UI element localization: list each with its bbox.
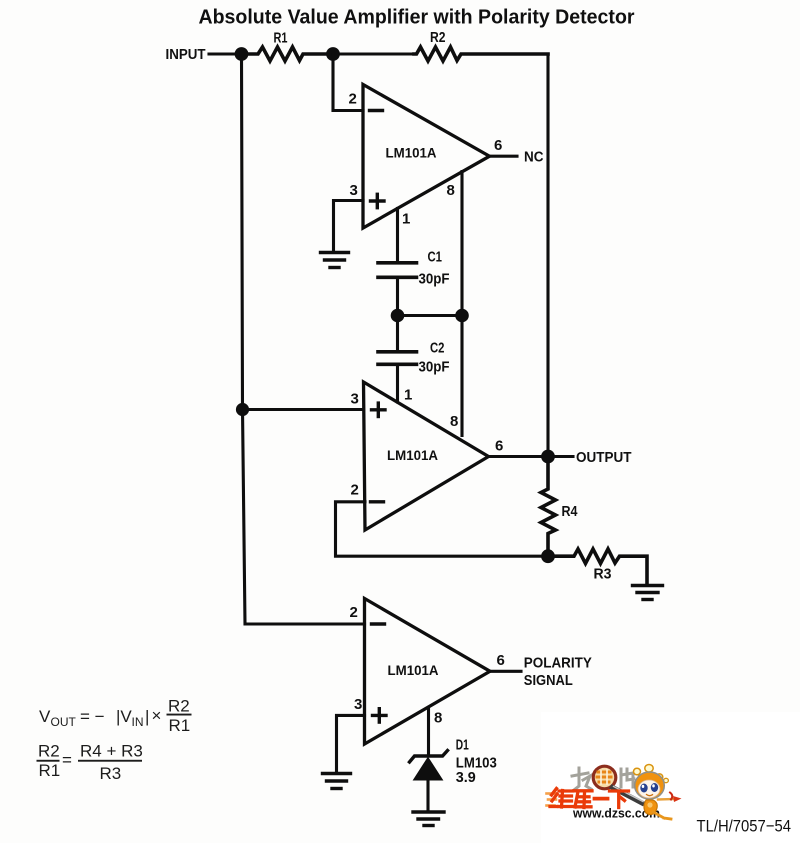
node OUTPUT junction <box>541 450 555 464</box>
diode D1 zener cathode bar <box>410 751 448 763</box>
wire junction row <box>398 314 463 317</box>
wire input stub <box>209 52 242 55</box>
svg-text:V: V <box>39 707 51 726</box>
svg-text:1: 1 <box>402 211 410 228</box>
svg-text:INPUT: INPUT <box>166 47 206 63</box>
wire U2 output <box>489 455 549 458</box>
watermark char wei <box>550 789 573 808</box>
capacitor C1 <box>378 263 417 278</box>
formula VOUT fraction bar <box>167 714 192 716</box>
plus symbol U2 <box>372 403 386 416</box>
svg-text:6: 6 <box>495 438 503 455</box>
svg-text:C1: C1 <box>428 250 443 266</box>
svg-text:×: × <box>152 706 162 725</box>
svg-text:NC: NC <box>524 150 544 166</box>
svg-text:3.9: 3.9 <box>456 770 476 786</box>
resistor R4 <box>541 457 556 557</box>
svg-text:R1: R1 <box>39 761 61 780</box>
svg-text:30pF: 30pF <box>419 359 450 375</box>
svg-text:R1: R1 <box>274 31 288 47</box>
diode D1 anode triangle <box>414 758 443 781</box>
wire U2 feedback loop <box>336 502 549 556</box>
watermark magnifier handle <box>613 787 644 804</box>
svg-text:R2: R2 <box>168 697 190 716</box>
svg-text:R4 + R3: R4 + R3 <box>80 742 143 761</box>
resistor R1 <box>242 47 334 61</box>
watermark char ku <box>574 791 592 808</box>
watermark char zhao <box>572 768 591 790</box>
wire left input rail <box>242 54 365 624</box>
wire U3 pin8 to D1 <box>427 708 430 755</box>
ground G1 <box>321 253 349 268</box>
op-amp U1 <box>363 85 490 229</box>
svg-text:|V: |V <box>116 707 132 726</box>
svg-text:Absolute Value Amplifier with: Absolute Value Amplifier with Polarity D… <box>199 6 635 29</box>
wire U1 pin1 to C1 <box>396 209 399 262</box>
formula ratio fraction bar right <box>78 760 142 762</box>
minus symbol U1 <box>370 109 383 112</box>
svg-text:8: 8 <box>447 182 455 199</box>
svg-text:C2: C2 <box>430 340 445 356</box>
node F junction <box>541 549 555 563</box>
formula ratio <box>38 742 143 784</box>
svg-text:R1: R1 <box>169 716 191 735</box>
node junction B <box>326 47 340 61</box>
plus symbol U1 <box>371 194 385 207</box>
minus symbol U2 <box>371 500 384 503</box>
wire U2 pin3 from input rail <box>242 408 364 411</box>
svg-text:2: 2 <box>349 91 357 108</box>
op-amp U2 <box>364 382 489 530</box>
plus symbol U3 <box>373 709 387 722</box>
wire U3 pin6 <box>490 670 521 673</box>
formula ratio fraction bar left <box>37 760 60 762</box>
wire C2 to U2 pin1 <box>396 366 399 402</box>
ground G2 <box>633 586 663 600</box>
node E junction <box>236 403 249 416</box>
wire output dash <box>554 455 573 458</box>
svg-text:30pF: 30pF <box>419 271 450 287</box>
svg-text:LM101A: LM101A <box>388 662 439 678</box>
svg-text:TL/H/7057−54: TL/H/7057−54 <box>697 817 792 836</box>
svg-text:OUTPUT: OUTPUT <box>576 450 632 466</box>
svg-text:1: 1 <box>404 387 412 404</box>
watermark char pian <box>621 769 634 787</box>
watermark char yi <box>595 797 608 801</box>
svg-text:POLARITY: POLARITY <box>524 656 592 672</box>
watermark speed dashes <box>547 794 557 806</box>
formula VOUT <box>39 697 190 736</box>
svg-text:=: = <box>62 751 72 770</box>
svg-text:R3: R3 <box>594 567 612 583</box>
capacitor C2 <box>378 352 417 365</box>
svg-text:= −: = − <box>80 707 105 726</box>
op-amp U3 <box>365 599 491 745</box>
svg-text:R4: R4 <box>562 504 578 520</box>
node C junction <box>391 309 405 323</box>
svg-text:LM101A: LM101A <box>386 145 437 161</box>
svg-text:LM101A: LM101A <box>387 447 438 463</box>
wire U1 pin3 <box>334 201 364 252</box>
wire C1 to junction <box>396 279 399 316</box>
svg-text:R2: R2 <box>430 30 446 46</box>
svg-text:IN: IN <box>132 715 144 729</box>
watermark char xia <box>610 791 629 808</box>
svg-text:2: 2 <box>350 604 358 621</box>
wire right feedback rail <box>546 54 549 457</box>
watermark magnifier <box>593 766 616 789</box>
svg-text:R3: R3 <box>100 764 122 783</box>
resistor R3 <box>548 549 647 583</box>
svg-text:R2: R2 <box>38 742 60 761</box>
svg-text:6: 6 <box>497 652 505 669</box>
wire U3 pin3 <box>337 715 365 772</box>
svg-text:2: 2 <box>351 482 359 499</box>
watermark mascot <box>634 765 682 820</box>
wire U1 pin6 NC <box>490 155 518 158</box>
resistor R2 <box>414 47 548 61</box>
node input junction A <box>235 47 249 61</box>
svg-text:|: | <box>145 707 149 726</box>
wire D1 to ground <box>426 780 429 810</box>
node D junction <box>455 309 469 323</box>
wire top to R2 <box>333 52 414 55</box>
ground G4 <box>413 812 444 826</box>
wire junction to C2 <box>396 316 399 351</box>
svg-text:8: 8 <box>450 413 458 430</box>
ground G3 <box>323 774 351 789</box>
svg-text:8: 8 <box>434 710 442 727</box>
svg-text:3: 3 <box>354 696 362 713</box>
svg-text:3: 3 <box>350 182 358 199</box>
watermark white box <box>541 712 800 843</box>
svg-text:6: 6 <box>494 137 502 154</box>
svg-text:3: 3 <box>351 390 359 407</box>
svg-text:OUT: OUT <box>51 715 77 729</box>
minus symbol U3 <box>372 622 385 625</box>
svg-text:SIGNAL: SIGNAL <box>524 673 573 689</box>
svg-text:LM103: LM103 <box>456 755 497 771</box>
svg-text:D1: D1 <box>456 738 469 754</box>
wire U1 pin2 <box>333 54 363 111</box>
wire compensation rail pin8 U1 to pin8 U2 <box>460 172 463 436</box>
